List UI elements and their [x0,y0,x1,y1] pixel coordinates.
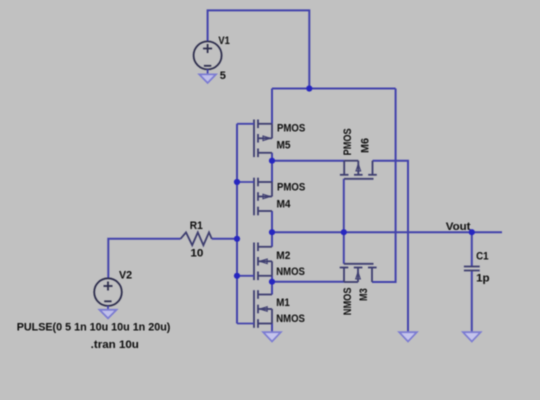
node Vout C1 tap [469,229,475,235]
svg-text:M5: M5 [277,140,291,152]
node M5 drain M4 source M6 [269,158,275,164]
node Vout rail start [269,229,275,235]
ground under V1 [199,69,216,83]
svg-text:5: 5 [220,70,226,82]
wire gate tie M6-M3 through Vout [343,179,345,264]
resistor R1 [181,232,212,245]
svg-text:PULSE(0 5 1n 10u 10u 1n 20u): PULSE(0 5 1n 10u 10u 1n 20u) [17,322,171,334]
wire R1 to gate bus [212,238,237,240]
ground under V2 [100,306,117,318]
svg-text:R1: R1 [190,220,203,232]
wire V2 to R1 [108,239,180,279]
transistor M3 NMOS rotated [340,264,377,282]
wire M6 drain to ground [373,161,409,333]
svg-text:10: 10 [190,247,203,259]
svg-text:NMOS: NMOS [276,313,305,325]
transistor M1 NMOS [237,290,272,328]
transistor M6 PMOS rotated [340,161,377,179]
voltage source V1 [194,41,222,69]
transistor M2 NMOS [237,243,272,281]
ground under M6 drain line [399,332,417,341]
svg-text:NMOS: NMOS [342,288,354,316]
svg-text:.tran 10u: .tran 10u [91,339,139,351]
wire Vout rail [272,231,502,233]
svg-text:C1: C1 [476,250,488,262]
svg-text:V1: V1 [218,35,229,47]
wire C1 leads [471,232,473,332]
svg-text:NMOS: NMOS [276,266,305,278]
svg-text:PMOS: PMOS [277,181,305,193]
wire node B to M3 drain [272,281,344,283]
svg-text:M4: M4 [277,199,292,211]
node M4 gate on bus [234,179,240,185]
node gate tie on Vout rail [341,229,347,235]
wire V1 top loop [208,10,310,88]
transistor M5 PMOS [237,120,272,158]
node V1 feed junction [306,85,312,91]
wire gate bus vertical [236,124,238,324]
svg-text:M2: M2 [276,250,290,262]
node M2 M1 M3 [269,279,275,285]
svg-text:Vout: Vout [446,221,471,233]
ground under C1 [463,332,481,341]
transistor M4 PMOS [237,178,272,216]
svg-text:PMOS: PMOS [342,128,354,155]
svg-text:V2: V2 [119,269,132,281]
svg-text:PMOS: PMOS [277,123,305,135]
node R1 on bus [234,236,240,242]
svg-text:M3: M3 [358,288,370,301]
svg-text:M6: M6 [360,138,372,153]
svg-text:M1: M1 [276,297,290,309]
svg-text:1p: 1p [476,272,490,284]
wire node A to M6 source [272,160,344,162]
node M2 gate on bus [234,273,240,279]
voltage source V2 [94,278,122,306]
capacitor C1 [464,267,480,271]
wire right vertical to M3 source [372,89,396,283]
wire VDD top rail [272,88,396,90]
wire left backbone M5-M4-M2-M1 [271,89,273,333]
ground under M1 [263,332,281,341]
